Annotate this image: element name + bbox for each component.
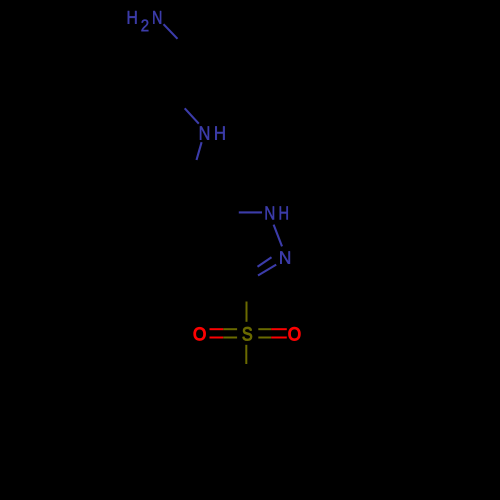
pyrazole ring N1 label H (of NH) bbox=[280, 206, 288, 219]
left S=O double bond upper line (O half) bbox=[210, 328, 224, 330]
bond ring N1-N2 bbox=[274, 225, 282, 247]
pyrazole ring N2 nitrogen label bbox=[280, 251, 290, 263]
bond NH linker to ring carbon (N half) bbox=[197, 142, 202, 160]
pyrazole ring N1 nitrogen (of NH) bbox=[266, 206, 274, 219]
right S=O double bond upper line (S half) bbox=[258, 328, 271, 330]
right S=O double bond lower line (O half) bbox=[271, 337, 287, 339]
primary amine subscript 2 (of H2N) bbox=[141, 19, 148, 31]
primary amine label H (of H2N) bbox=[128, 11, 137, 24]
double bond C3=N2 inner line (N half) bbox=[258, 257, 272, 267]
double bond C3=N2 outer line (N half) bbox=[258, 265, 276, 276]
bond ring C-N1H (N half) bbox=[239, 211, 262, 213]
left sulfonyl oxygen O label bbox=[194, 327, 206, 340]
right S=O double bond lower line (S half) bbox=[258, 337, 271, 339]
bond C3-S (S half) bbox=[246, 302, 248, 322]
bond CH2-NH linker (N half) bbox=[185, 108, 199, 123]
right S=O double bond upper line (O half) bbox=[271, 328, 287, 330]
linker secondary amine nitrogen N (of NH) bbox=[200, 126, 209, 139]
bond S to lower carbon (S half) bbox=[245, 345, 247, 364]
right sulfonyl oxygen O label bbox=[289, 327, 301, 340]
left S=O double bond lower line (O half) bbox=[210, 337, 224, 339]
linker secondary amine label H (of NH) bbox=[215, 126, 224, 139]
sulfonyl sulfur S label bbox=[243, 327, 252, 340]
left S=O double bond upper line (S half) bbox=[223, 328, 237, 330]
primary amine nitrogen N (of H2N) bbox=[153, 11, 161, 24]
bond H2N-CH2 (N half) bbox=[164, 24, 178, 39]
left S=O double bond lower line (S half) bbox=[223, 337, 237, 339]
